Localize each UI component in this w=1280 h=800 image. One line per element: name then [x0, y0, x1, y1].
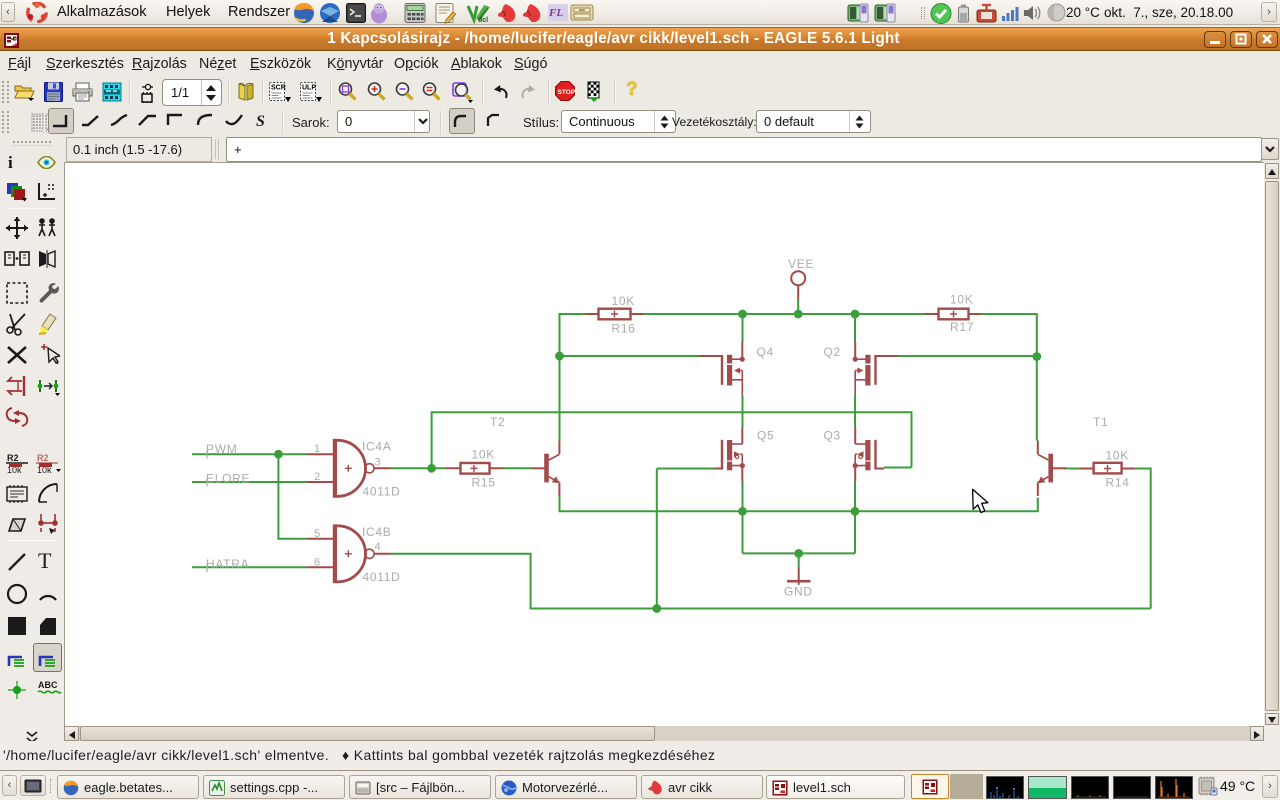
svg-text:10K: 10K	[472, 448, 495, 462]
name label Q5	[757, 429, 774, 443]
wire Q2 gate row	[897, 355, 1038, 357]
pin number 5	[314, 528, 320, 540]
junction rail-Q2	[851, 310, 860, 319]
junction bottom rail / Q5 gate	[652, 604, 661, 613]
ground symbol GND	[787, 567, 811, 585]
svg-text:10K: 10K	[1106, 449, 1129, 463]
resistor R16	[586, 309, 644, 320]
svg-text:FL: FL	[548, 7, 563, 19]
svg-text:Q2: Q2	[824, 345, 841, 359]
wire PWM input	[192, 453, 307, 455]
resistor R14	[1080, 463, 1136, 474]
svg-text:R17: R17	[950, 320, 974, 334]
value label 10K (R14)	[1106, 449, 1129, 463]
value label 10K (R17)	[950, 293, 973, 307]
wire R14 right down to bottom rail	[1135, 468, 1150, 609]
junction PWM branch	[274, 450, 283, 459]
junction rail-VEE	[794, 310, 803, 319]
svg-text:10K: 10K	[950, 293, 973, 307]
name label R14	[1106, 476, 1130, 490]
wire PWM branch to pin5	[277, 454, 306, 539]
svg-text:R14: R14	[1106, 476, 1130, 490]
svg-text:STOP: STOP	[558, 89, 576, 96]
net label ELORE	[206, 472, 250, 487]
resistor R17	[925, 309, 981, 320]
wire rail left branch to R16	[560, 313, 587, 441]
name label Q4	[757, 345, 774, 359]
transistor Q5 (N-MOSFET)	[715, 427, 745, 481]
wire GND stub	[798, 553, 800, 567]
net label VEE	[788, 257, 814, 271]
resistor R15	[446, 463, 504, 474]
svg-text:T2: T2	[490, 415, 505, 429]
svg-text:Q3: Q3	[824, 429, 841, 443]
junction Q5 source	[738, 507, 747, 516]
wire T1 base to R14	[1064, 468, 1081, 470]
name label R15	[472, 476, 496, 490]
pin number 3	[375, 457, 381, 469]
name label T1	[1093, 415, 1108, 429]
svg-text:Q5: Q5	[757, 429, 774, 443]
wire Q4 source to Q5 drain	[742, 396, 744, 427]
op-amp gate IC4B (NAND 4011D)	[307, 524, 391, 583]
transistor Q4 (P-MOSFET)	[700, 342, 745, 396]
pin number 4	[375, 541, 381, 553]
wire Q4 gate row	[560, 355, 701, 357]
name label T2	[490, 415, 505, 429]
svg-text:°: °	[48, 184, 50, 190]
wire bottom rail	[530, 608, 1151, 610]
wire Q2 source to Q3 drain	[854, 396, 856, 427]
svg-text:4011D: 4011D	[363, 570, 401, 584]
transistor T2 (NPN)	[531, 441, 559, 497]
svg-text:1: 1	[314, 443, 320, 455]
junction Q4 gate / T2 collector	[555, 352, 564, 361]
svg-text:2: 2	[314, 471, 320, 483]
wire ELORE input	[192, 481, 307, 483]
transistor T1 (NPN, mirrored)	[1038, 441, 1066, 497]
junction Q2 gate / T1 collector	[1032, 352, 1041, 361]
wire bottom rail up to Q5 gate	[657, 469, 715, 609]
svg-text:4011D: 4011D	[363, 485, 401, 499]
wire Q2 drain drop	[854, 314, 856, 342]
wire Q4 drain drop	[742, 314, 744, 342]
name label R17	[950, 320, 974, 334]
svg-text:IC4A: IC4A	[362, 440, 391, 454]
wire Q5 source drop	[742, 481, 744, 511]
value label 10K (R15)	[472, 448, 495, 462]
name label IC4A	[362, 440, 391, 454]
svg-text:S: S	[256, 113, 265, 130]
op-amp gate IC4A (NAND 4011D)	[307, 439, 391, 498]
svg-text:R2: R2	[37, 453, 49, 463]
name label R16	[612, 322, 636, 336]
junction rail-Q4	[738, 310, 747, 319]
wire VEE rail y=314	[644, 313, 925, 315]
name label Q2	[824, 345, 841, 359]
svg-text:R16: R16	[612, 322, 636, 336]
supply symbol VEE	[791, 271, 805, 299]
svg-text:VEE: VEE	[788, 257, 814, 271]
wire Q3 source drop	[854, 481, 856, 511]
svg-text:R2: R2	[7, 453, 19, 463]
pin number 1	[314, 443, 320, 455]
svg-text:SCR: SCR	[271, 85, 286, 92]
svg-text:ELORE: ELORE	[206, 472, 250, 486]
svg-text:10K: 10K	[612, 294, 635, 308]
svg-text:4: 4	[375, 541, 381, 553]
net label PWM	[206, 442, 237, 459]
junction R15 node	[427, 464, 436, 473]
svg-text:GND: GND	[784, 585, 813, 599]
wire rail right branch to R17	[981, 313, 1037, 441]
svg-text:R15: R15	[472, 476, 496, 490]
svg-text:ABC: ABC	[38, 680, 58, 690]
mouse cursor	[973, 489, 988, 512]
wire emitter row y=511.3	[559, 496, 1039, 511]
wire GND loop	[743, 510, 856, 553]
svg-text:3: 3	[375, 457, 381, 469]
svg-text:T1: T1	[1093, 415, 1108, 429]
wire HATRA input	[192, 566, 307, 568]
wire junction up and across to Q3 gate column	[431, 411, 912, 468]
net label HATRA	[206, 557, 249, 572]
name label Q3	[824, 429, 841, 443]
svg-text:6: 6	[314, 557, 320, 569]
value label 4011D (IC4B)	[363, 570, 401, 584]
wire IC4A out to R15 junction	[391, 467, 447, 469]
value label 4011D (IC4A)	[363, 485, 401, 499]
name label IC4B	[362, 525, 391, 539]
svg-text:5: 5	[314, 528, 320, 540]
transistor Q2 (P-MOSFET, mirrored)	[853, 342, 898, 396]
svg-text:Q4: Q4	[757, 345, 774, 359]
wire IC4B out down to bottom rail	[391, 553, 531, 609]
svg-text:ULP: ULP	[302, 85, 316, 92]
wire VEE symbol drop	[797, 299, 799, 314]
svg-text:PWM: PWM	[206, 442, 237, 456]
net label GND	[784, 585, 813, 599]
transistor Q3 (N-MOSFET, mirrored)	[853, 427, 884, 481]
pin number 6	[314, 557, 320, 569]
svg-text:dcl: dcl	[478, 17, 488, 24]
junction Q3 source	[851, 507, 860, 516]
pin number 2	[314, 471, 320, 483]
value label 10K (R16)	[612, 294, 635, 308]
svg-text:IC4B: IC4B	[362, 525, 391, 539]
wire R15 to T2 base	[504, 467, 531, 469]
svg-text:HATRA: HATRA	[206, 557, 249, 571]
junction GND node	[794, 549, 803, 558]
